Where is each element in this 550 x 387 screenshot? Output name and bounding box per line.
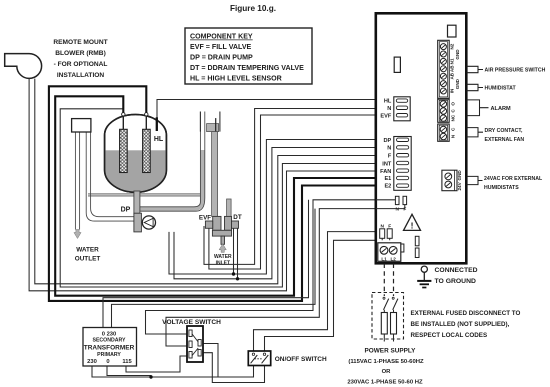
svg-text:115: 115 [122, 359, 132, 365]
wire voltage switch mid to neutral run [203, 344, 219, 378]
svg-text:INLET: INLET [216, 260, 230, 266]
slot b bottom [415, 248, 419, 258]
svg-text:F: F [388, 154, 392, 160]
svg-text:TRANSFORMER: TRANSFORMER [84, 344, 135, 351]
pipe pump outlet riser [86, 132, 134, 221]
bracket humidistat [467, 84, 484, 90]
terminal strip N2..IN [438, 40, 450, 98]
svg-text:(115VAC 1-PHASE 50-60HZ: (115VAC 1-PHASE 50-60HZ [348, 359, 424, 365]
drain pump rotor [142, 216, 155, 229]
svg-text:AB: AB [449, 65, 454, 72]
wire N2 to pump [174, 148, 376, 279]
svg-text:DRY CONTACT,: DRY CONTACT, [485, 128, 524, 134]
high level sensor HL probe [156, 117, 158, 131]
dashed disconnect box [372, 293, 404, 340]
wire INT cabinet loop [60, 109, 376, 287]
electrode E2 rod [143, 129, 151, 172]
disconnect blade 1 [384, 299, 389, 310]
water outlet connector box [72, 119, 91, 132]
svg-text:ON/OFF SWITCH: ON/OFF SWITCH [275, 356, 327, 363]
drain pump body [134, 213, 142, 232]
svg-text:N: N [387, 146, 391, 152]
ground symbol [417, 266, 431, 287]
svg-text:ALARM: ALARM [491, 106, 512, 112]
tank water [104, 150, 167, 193]
svg-text:WATER: WATER [214, 254, 232, 260]
svg-text:N1: N1 [449, 58, 454, 64]
fill cup [200, 112, 220, 132]
tank body [105, 115, 167, 193]
svg-text:POWER SUPPLY: POWER SUPPLY [365, 347, 417, 354]
terminal block L1 L2 [378, 243, 401, 262]
svg-text:VOLTAGE SWITCH: VOLTAGE SWITCH [162, 319, 221, 326]
junction dot DT b [236, 277, 239, 280]
fuse N on board [380, 229, 385, 241]
svg-text:CONNECTED: CONNECTED [435, 267, 478, 274]
wire F lower hook [376, 205, 405, 209]
valve EVF body [213, 216, 221, 230]
wire F power to voltage switch [166, 209, 376, 346]
bracket dry contact [467, 128, 484, 137]
svg-text:HL: HL [154, 136, 164, 143]
svg-text:L2: L2 [391, 256, 397, 261]
svg-text:RESPECT LOCAL CODES: RESPECT LOCAL CODES [411, 332, 488, 339]
terminal circle E1 [122, 113, 125, 116]
wire voltage switch to transformer 115 [126, 356, 188, 372]
svg-text:EVF: EVF [199, 215, 211, 222]
wire voltage switch bottom to on/off switch [203, 353, 265, 383]
pipe drain from tank [134, 191, 140, 214]
dashed wire L2 [393, 264, 395, 297]
svg-text:HL: HL [384, 99, 392, 105]
svg-text:FAN: FAN [380, 169, 391, 175]
pipe DT feed [227, 199, 232, 216]
svg-text:Figure 10.g.: Figure 10.g. [230, 4, 276, 13]
svg-text:AB: AB [449, 72, 454, 79]
dashed wire L1 [383, 264, 385, 297]
labels C N [451, 127, 456, 138]
junction dot DT a [232, 272, 235, 275]
screws strip1 [440, 44, 446, 94]
pipe outlet drop [75, 132, 79, 230]
valve DT coil nub [232, 221, 239, 228]
labels DP N F INT FAN E1 E2 [380, 138, 392, 190]
connector mid left [394, 57, 400, 72]
connector block DP..E2 [394, 137, 411, 191]
svg-text:INSTALLATION: INSTALLATION [57, 72, 105, 79]
wire FAN to blower [29, 79, 376, 291]
pipe gray fill line from drain to fill tube [140, 150, 203, 209]
labels GND 24V [457, 170, 462, 191]
svg-text:WATER: WATER [76, 247, 99, 254]
svg-text:24VAC FOR EXTERNAL: 24VAC FOR EXTERNAL [484, 176, 543, 182]
wire N lower hook [376, 199, 395, 201]
terminal strip 24V GND [442, 170, 457, 191]
electrode E1 lead [122, 115, 124, 130]
svg-text:L1: L1 [381, 256, 387, 261]
connector top right [448, 25, 457, 37]
pipe EVF feed [212, 132, 218, 217]
voltage switch [187, 326, 203, 362]
svg-text:0 230: 0 230 [102, 331, 117, 337]
disconnect blade 2 [393, 299, 398, 310]
fuse F on board [387, 229, 392, 241]
wire DP [169, 140, 376, 275]
terminal strip alarm O C NC [438, 99, 450, 122]
svg-text:GND: GND [455, 49, 460, 60]
valve EVF coil nub [205, 221, 212, 228]
wire N power branch to transformer 0 [103, 200, 309, 328]
bracket alarm [467, 100, 489, 116]
terminal circle E2 [145, 113, 148, 116]
on/off switch [248, 351, 270, 366]
svg-text:GND: GND [455, 78, 460, 89]
wire F fuse to on/off switch [265, 240, 377, 351]
svg-text:!: ! [411, 221, 414, 231]
fuse 2 [391, 310, 397, 342]
svg-text:DT: DT [233, 214, 242, 221]
svg-text:DP: DP [384, 138, 392, 144]
svg-text:TO GROUND: TO GROUND [435, 278, 477, 285]
wire F power branch to transformer 230 [112, 209, 316, 328]
svg-text:DT = DDRAIN TEMPERING VALVE: DT = DDRAIN TEMPERING VALVE [190, 64, 304, 72]
svg-text:E1: E1 [384, 176, 391, 182]
svg-text:NC: NC [451, 114, 456, 121]
svg-text:N: N [395, 207, 399, 213]
svg-text:EVF = FILL VALVE: EVF = FILL VALVE [190, 43, 252, 51]
labels strip1 rotated [449, 43, 460, 93]
labels HL N EVF [380, 99, 391, 120]
bracket air pressure switch [467, 66, 484, 72]
pipe white horizontal tank to fill tube [88, 194, 200, 196]
svg-text:EXTERNAL FUSED DISCONNECT TO: EXTERNAL FUSED DISCONNECT TO [411, 310, 521, 317]
wire HL [157, 100, 376, 119]
svg-text:N: N [387, 106, 391, 112]
slot right of L2 [400, 244, 404, 252]
svg-text:INT: INT [382, 161, 392, 167]
svg-text:EXTERNAL FAN: EXTERNAL FAN [485, 137, 525, 143]
wire transformer 0 bottom [107, 366, 151, 377]
water outlet arrow [74, 230, 81, 239]
pipe fill tube borders [140, 112, 205, 212]
valve manifold [212, 230, 231, 236]
svg-text:IN: IN [449, 88, 454, 93]
svg-text:HL = HIGH LEVEL SENSOR: HL = HIGH LEVEL SENSOR [190, 75, 282, 83]
wire E2 thick electrode [49, 86, 376, 301]
wire N power to voltage switch [146, 200, 377, 334]
note: remote mount blower text [53, 39, 107, 79]
svg-text:EVF: EVF [380, 113, 391, 119]
svg-text:N2: N2 [449, 43, 454, 49]
svg-text:DP: DP [121, 207, 131, 214]
bracket 24vac [467, 176, 483, 184]
wire E1 thick electrode [55, 96, 376, 295]
component key box [185, 28, 312, 84]
wire DT b [237, 228, 239, 278]
wire N fuse to on/off switch [254, 232, 380, 352]
control board outline [376, 13, 467, 263]
svg-text:O: O [451, 102, 456, 106]
labels O C NC [451, 102, 456, 122]
svg-text:230VAC 1-PHASE 50-60 HZ: 230VAC 1-PHASE 50-60 HZ [347, 379, 423, 385]
svg-text:AIR PRESSURE SWITCH: AIR PRESSURE SWITCH [485, 67, 546, 73]
blower RMB [5, 54, 42, 79]
pin F lower [403, 196, 407, 204]
svg-text:E2: E2 [384, 184, 391, 190]
wire DT a [233, 228, 235, 274]
svg-text:BE INSTALLED (NOT SUPPLIED),: BE INSTALLED (NOT SUPPLIED), [411, 321, 510, 328]
transformer box [83, 328, 137, 367]
valve DT body [225, 216, 232, 230]
svg-text:- FOR OPTIONAL: - FOR OPTIONAL [54, 61, 108, 68]
inlet stub [221, 236, 225, 244]
svg-text:DP = DRAIN PUMP: DP = DRAIN PUMP [190, 54, 253, 62]
svg-text:HUMIDISTAT: HUMIDISTAT [485, 85, 517, 91]
wire EVF [209, 115, 376, 269]
svg-text:GND: GND [457, 170, 462, 181]
connector block HL/N/EVF [394, 97, 410, 121]
svg-text:HUMIDISTATS: HUMIDISTATS [484, 185, 519, 191]
svg-text:BLOWER (RMB): BLOWER (RMB) [55, 50, 106, 57]
wire N to EVF valve left terminal [204, 109, 376, 265]
wire F to blower [35, 79, 376, 284]
pin N lower [395, 196, 399, 204]
slot a bottom [415, 236, 419, 246]
electrode E1 rod [120, 129, 128, 172]
svg-text:OUTLET: OUTLET [75, 256, 101, 263]
terminal strip dry contact C N [438, 124, 450, 141]
water inlet arrow [219, 244, 226, 253]
junction dot transformer 0 [149, 375, 152, 378]
fuse 1 [381, 310, 387, 342]
svg-text:0: 0 [106, 359, 109, 365]
svg-text:24V: 24V [457, 181, 462, 190]
svg-text:OR: OR [382, 369, 392, 375]
svg-text:SECONDARY: SECONDARY [93, 338, 126, 344]
svg-text:230: 230 [87, 359, 97, 365]
electrode E2 lead [145, 115, 147, 130]
warning triangle [404, 214, 421, 230]
svg-text:PRIMARY: PRIMARY [97, 352, 121, 358]
svg-text:REMOTE MOUNT: REMOTE MOUNT [53, 39, 107, 46]
wire transformer 230 bottom to on/off switch [92, 366, 254, 378]
svg-text:COMPONENT KEY: COMPONENT KEY [190, 33, 253, 41]
